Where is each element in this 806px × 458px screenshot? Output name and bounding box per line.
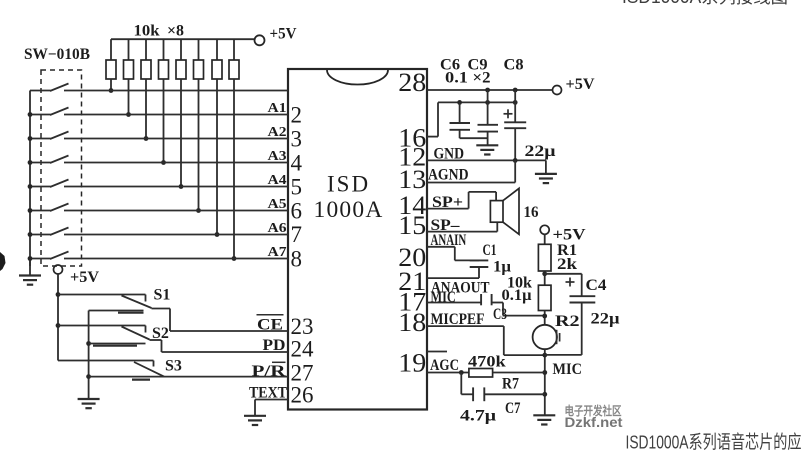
resistor R-net 3 (10k pull-up) — [141, 39, 151, 141]
+5V terminal (top right) — [553, 76, 595, 95]
label 10k x8 — [134, 23, 185, 40]
ground (GND/AGND) — [535, 174, 557, 183]
svg-text:24: 24 — [291, 337, 315, 362]
wire ANAOUT — [427, 277, 479, 279]
pin number 28 — [398, 68, 426, 97]
node PD label — [263, 337, 286, 354]
DIP switch block SW-010B label — [24, 46, 90, 63]
svg-text:+5V: +5V — [566, 76, 595, 93]
svg-text:3: 3 — [291, 127, 303, 152]
switch SW2 of SW-010B — [28, 108, 288, 117]
capacitor C9 — [478, 90, 499, 145]
node TEXT label, pin 26 wire and ground — [244, 384, 288, 425]
label 16 (speaker) — [524, 204, 539, 221]
svg-text:A5: A5 — [268, 196, 287, 211]
label 22u (C8) — [525, 143, 556, 160]
labels R1 2k — [557, 242, 577, 273]
svg-text:A2: A2 — [268, 124, 287, 139]
pin number 18 — [398, 308, 426, 337]
pin number 26 — [291, 382, 314, 407]
pin number 14 — [398, 191, 426, 220]
pin number 5 — [291, 175, 303, 200]
svg-text:CE: CE — [257, 317, 283, 334]
svg-text:A3: A3 — [268, 148, 287, 163]
switch S1 — [56, 292, 152, 308]
svg-text:SW−010B: SW−010B — [24, 46, 90, 63]
wire S2 to PD — [150, 340, 289, 352]
svg-text:C7: C7 — [505, 400, 520, 417]
svg-text:0.1: 0.1 — [445, 70, 468, 87]
label AGC — [430, 357, 459, 374]
node A7 label — [268, 244, 287, 259]
svg-text:6: 6 — [291, 199, 303, 224]
pin number 2 — [291, 103, 303, 128]
+5V terminal (R1) — [540, 225, 586, 243]
node CE label — [257, 315, 284, 334]
pin number 21 — [398, 267, 426, 296]
capacitor C4 electrolytic — [545, 274, 596, 355]
switch S3 — [58, 361, 164, 377]
label S1 — [154, 287, 171, 304]
svg-text:P/R: P/R — [252, 363, 287, 380]
svg-text:PD: PD — [263, 337, 286, 354]
label S2 — [152, 325, 169, 342]
bottom caption — [626, 432, 802, 453]
pin number 24 — [291, 337, 315, 362]
svg-text:+5V: +5V — [553, 226, 587, 243]
wire AGC — [427, 370, 469, 375]
label SP+ — [432, 194, 463, 211]
wire S1 to CE — [152, 309, 289, 332]
svg-text:ISD: ISD — [327, 172, 370, 197]
label MIC (mic) — [553, 361, 582, 378]
node A4 label — [268, 172, 287, 187]
svg-text:16: 16 — [524, 204, 539, 221]
pin number 20 — [398, 243, 426, 272]
svg-text:15: 15 — [398, 211, 426, 240]
wire pin17 to C3 — [427, 302, 481, 304]
label C7 — [505, 400, 520, 417]
ground (mic rail) — [533, 415, 555, 424]
resistor R-net 4 (10k pull-up) — [159, 39, 169, 165]
capacitor C3 — [481, 294, 545, 316]
svg-text:R7: R7 — [502, 376, 519, 393]
svg-text:ISD1000A系列接线图: ISD1000A系列接线图 — [622, 0, 788, 7]
pin number 23 — [291, 314, 314, 339]
label ANAOUT — [431, 279, 490, 296]
wire pin16 rail — [427, 100, 518, 137]
svg-text:A6: A6 — [268, 220, 287, 235]
ground bus of switches — [86, 311, 164, 399]
capacitor C8 electrolytic — [504, 90, 527, 160]
svg-text:S1: S1 — [154, 287, 171, 304]
resistor R2 10k — [538, 285, 551, 325]
wire mic to ground rail — [542, 349, 547, 415]
switch SW3 of SW-010B — [28, 132, 288, 141]
label S3 — [165, 358, 182, 375]
svg-text:R2: R2 — [555, 313, 580, 330]
wire SP+ to speaker — [427, 192, 496, 209]
resistor R1 2k — [538, 234, 551, 285]
svg-text:×2: ×2 — [473, 70, 491, 87]
switch SW8 of SW-010B — [28, 252, 288, 261]
label SP- — [431, 217, 461, 234]
svg-text:+5V: +5V — [70, 269, 99, 286]
label AGND — [428, 166, 469, 183]
pin number 3 — [291, 127, 303, 152]
pin number 17 — [398, 287, 426, 316]
switch SW1 of SW-010B — [30, 84, 288, 92]
svg-text:A1: A1 — [268, 100, 287, 115]
svg-text:7: 7 — [291, 222, 303, 247]
resistor R-net 8 (10k pull-up) — [229, 39, 239, 261]
ground (C6/C9) — [476, 145, 498, 154]
svg-text:1μ: 1μ — [493, 259, 511, 276]
svg-text:MIC: MIC — [553, 361, 582, 378]
pin number 13 — [398, 165, 426, 194]
node A3 label — [268, 148, 287, 163]
svg-text:A4: A4 — [268, 172, 287, 187]
pin number 16 — [398, 124, 426, 153]
ground (DIP switch bus) — [19, 259, 41, 285]
node P/R label — [252, 362, 287, 380]
svg-text:23: 23 — [291, 314, 314, 339]
resistor R-net 7 (10k pull-up) — [212, 39, 222, 237]
node A2 label — [268, 124, 287, 139]
label MICPEF — [431, 311, 485, 328]
switch SW5 of SW-010B — [28, 180, 288, 189]
svg-text:470k: 470k — [468, 354, 506, 371]
node A1 label — [268, 100, 287, 115]
pin number 12 — [398, 142, 426, 171]
label ANAIN — [431, 232, 467, 249]
svg-text:GND: GND — [434, 145, 465, 162]
svg-text:13: 13 — [398, 165, 426, 194]
label 470k — [468, 354, 506, 371]
svg-text:+5V: +5V — [270, 25, 297, 42]
resistor R7 470k — [469, 369, 545, 378]
switch SW4 of SW-010B — [28, 156, 288, 165]
svg-text:AGND: AGND — [428, 166, 469, 183]
pin number 15 — [398, 211, 426, 240]
label C4 — [586, 277, 607, 294]
resistor R-net 2 (10k pull-up) — [124, 39, 134, 117]
resistor R-net 6 (10k pull-up) — [194, 39, 204, 213]
unlabeled pin stub — [427, 351, 447, 353]
pin number 8 — [291, 246, 303, 271]
svg-text:8: 8 — [291, 246, 303, 271]
DIP switch common bus — [29, 91, 31, 267]
svg-text:10k: 10k — [134, 23, 160, 40]
resistor R-net 5 (10k pull-up) — [176, 39, 186, 189]
pin number 7 — [291, 222, 303, 247]
svg-text:22μ: 22μ — [525, 143, 556, 160]
label 10k (R2) — [507, 275, 532, 292]
svg-text:AGC: AGC — [430, 357, 459, 374]
svg-text:C8: C8 — [504, 57, 524, 74]
switch S2 — [56, 323, 150, 339]
wire ANAIN to C1 — [427, 247, 479, 261]
node A6 label — [268, 220, 287, 235]
pin number 6 — [291, 199, 303, 224]
label R7 — [502, 376, 519, 393]
wire SP- to speaker — [427, 222, 497, 231]
speaker LS1 — [490, 188, 519, 234]
wire pin28 to +5V — [427, 88, 553, 93]
svg-text:2: 2 — [291, 103, 303, 128]
svg-text:19: 19 — [398, 349, 426, 378]
top cropped caption — [622, 0, 788, 7]
node GND wire — [427, 158, 546, 174]
label MIC (pin17) — [431, 289, 456, 306]
svg-text:5: 5 — [291, 175, 303, 200]
svg-text:ISD1000A: ISD1000A — [626, 432, 689, 453]
svg-text:28: 28 — [398, 68, 426, 97]
microphone MIC — [533, 325, 560, 349]
ground (switch bus) — [78, 399, 100, 408]
svg-text:18: 18 — [398, 308, 426, 337]
label C3 — [493, 306, 507, 323]
node A5 label — [268, 196, 287, 211]
svg-text:10k: 10k — [507, 275, 532, 292]
pin number 27 — [291, 361, 314, 386]
labels C6 C9 C8, 0.1 x2 — [440, 57, 524, 87]
capacitor C7 — [461, 373, 545, 402]
wire +5V feed bus — [57, 274, 59, 361]
label 4.7u — [460, 408, 496, 425]
svg-text:S3: S3 — [165, 358, 182, 375]
svg-text:C1: C1 — [483, 242, 497, 259]
IC U1 ISD1000A body — [288, 69, 427, 410]
svg-text:MIC: MIC — [431, 289, 456, 306]
svg-text:4.7μ: 4.7μ — [460, 408, 496, 425]
svg-text:26: 26 — [291, 382, 314, 407]
capacitor C1 — [470, 260, 489, 278]
switch SW6 of SW-010B — [28, 204, 288, 213]
svg-text:22μ: 22μ — [591, 311, 620, 328]
+5V terminal (control switches) — [54, 265, 100, 286]
svg-text:1000A: 1000A — [314, 197, 384, 222]
svg-text:系列语音芯片的应: 系列语音芯片的应 — [689, 432, 802, 453]
svg-text:4: 4 — [291, 151, 303, 176]
svg-text:A7: A7 — [268, 244, 287, 259]
pin number 4 — [291, 151, 303, 176]
label 1u — [493, 259, 511, 276]
node AGND wire — [427, 160, 515, 182]
svg-text:×8: ×8 — [167, 23, 184, 40]
DIP switch dashed outline — [41, 70, 82, 266]
svg-text:C4: C4 — [586, 277, 607, 294]
label C1 — [483, 242, 497, 259]
svg-text:Dzkf.net: Dzkf.net — [565, 414, 623, 430]
+5V bus of resistor network — [111, 38, 255, 40]
wire S3 to P/R — [164, 376, 288, 378]
+5V terminal (resistor network) — [255, 25, 297, 45]
resistor R-net 1 (10k pull-up) — [106, 39, 116, 93]
label GND — [434, 145, 465, 162]
svg-text:C3: C3 — [493, 306, 507, 323]
switch SW7 of SW-010B — [28, 228, 288, 237]
wire MICPEF to mic bottom — [427, 326, 545, 355]
pin number 19 — [398, 349, 426, 378]
svg-text:2k: 2k — [557, 256, 577, 273]
capacitor C6 — [450, 102, 488, 138]
label 22u (C4) — [591, 311, 620, 328]
scan edge artifact — [0, 252, 6, 271]
watermark dzkf.net — [565, 403, 623, 430]
label R2 — [555, 313, 580, 330]
label 0.1u (C3) — [502, 287, 532, 304]
